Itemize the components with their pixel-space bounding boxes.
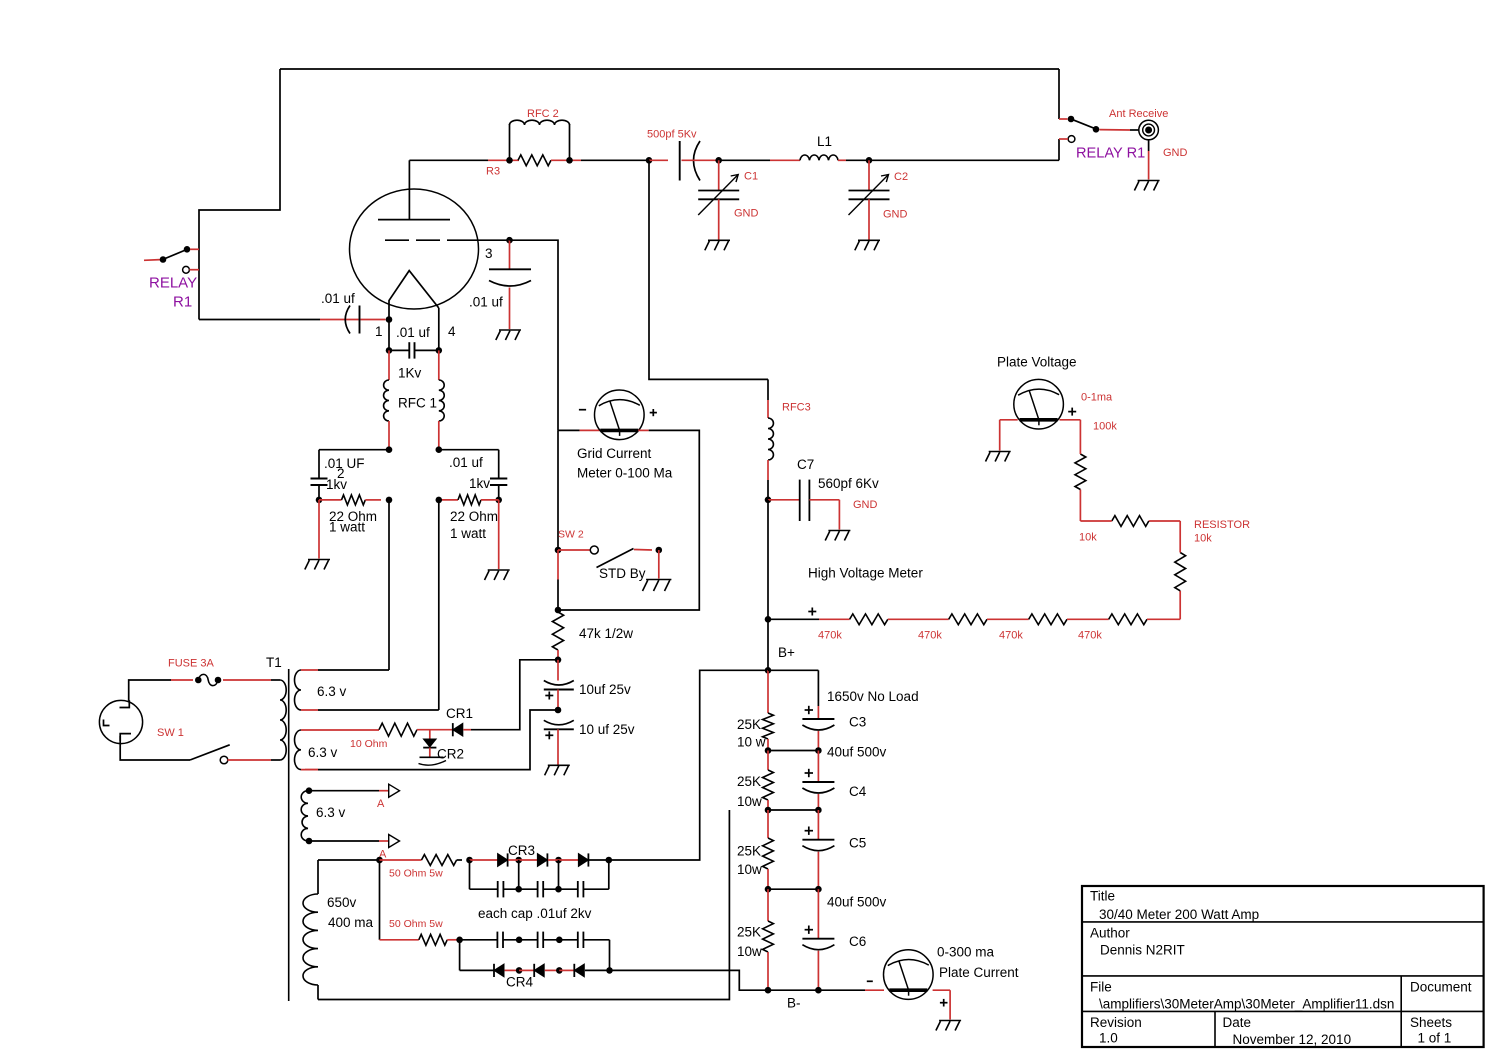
svg-text:560pf 6Kv: 560pf 6Kv bbox=[818, 476, 879, 491]
label .01 uf bbox=[469, 295, 503, 310]
node C7 junction bbox=[765, 497, 772, 504]
svg-text:1kv: 1kv bbox=[326, 477, 347, 492]
ground C1 bbox=[705, 240, 730, 250]
node B- right bbox=[815, 987, 822, 994]
svg-text:SW 1: SW 1 bbox=[157, 727, 184, 739]
node tap2 bbox=[765, 807, 819, 814]
capacitor 10 uf 25v (lower) bbox=[544, 720, 574, 739]
label + (plus) bbox=[940, 999, 948, 1007]
resistor 22 Ohm (left) bbox=[319, 495, 381, 505]
svg-text:C1: C1 bbox=[744, 171, 758, 183]
title block frame bbox=[1082, 886, 1484, 1047]
label 650v bbox=[327, 895, 357, 910]
resistor 470k #1 bbox=[850, 614, 888, 625]
label SW 1 bbox=[157, 727, 184, 739]
svg-text:.01 uf: .01 uf bbox=[449, 455, 483, 470]
svg-text:10k: 10k bbox=[1079, 532, 1097, 544]
svg-text:GND: GND bbox=[734, 208, 759, 220]
label 470k bbox=[1078, 630, 1102, 642]
svg-text:1 watt: 1 watt bbox=[329, 520, 365, 535]
svg-text:50 Ohm 5w: 50 Ohm 5w bbox=[389, 868, 443, 880]
label L1 bbox=[817, 134, 832, 149]
label Grid Current bbox=[577, 446, 652, 461]
label 50 Ohm 5w bbox=[389, 918, 443, 930]
svg-text:GND: GND bbox=[1163, 147, 1188, 159]
node pin 1 bbox=[386, 301, 393, 351]
wire 470k link3 bbox=[1067, 618, 1109, 620]
resistor 25K 10w #4 bbox=[763, 889, 774, 990]
svg-text:1.0: 1.0 bbox=[1099, 1031, 1118, 1046]
label 25K bbox=[737, 717, 761, 732]
tube filament bbox=[389, 271, 439, 308]
node CR4 out bbox=[606, 967, 613, 974]
node CR4 in bbox=[456, 937, 463, 944]
svg-text:C5: C5 bbox=[849, 836, 866, 851]
svg-text:10 uf 25v: 10 uf 25v bbox=[579, 722, 635, 737]
wire right box ground lead bbox=[498, 500, 500, 569]
wire 500pf to L1 bbox=[719, 159, 800, 161]
svg-text:470k: 470k bbox=[999, 630, 1023, 642]
wire SW2 node down bbox=[557, 550, 559, 610]
wire A down to CR4 row bbox=[379, 860, 381, 940]
tube V1 envelope bbox=[350, 189, 479, 309]
label Document bbox=[1410, 980, 1472, 995]
label STD By bbox=[599, 566, 646, 581]
svg-text:650v: 650v bbox=[327, 895, 357, 910]
wire winding3 top bbox=[309, 790, 388, 792]
svg-text:1kv: 1kv bbox=[469, 476, 490, 491]
label 560pf 6Kv bbox=[818, 476, 879, 491]
svg-text:FUSE 3A: FUSE 3A bbox=[168, 658, 215, 670]
svg-text:0-300 ma: 0-300 ma bbox=[937, 945, 995, 960]
inductor RFC 1 left bbox=[384, 350, 389, 449]
wire right box top bbox=[439, 450, 499, 479]
node CR3 a bbox=[508, 857, 522, 864]
connector A (top) bbox=[389, 784, 400, 797]
svg-text:1650v No Load: 1650v No Load bbox=[827, 689, 919, 704]
node B+ bbox=[765, 667, 772, 674]
transformer secondary 6.3v #2 bbox=[295, 730, 302, 770]
wire 470k link2 bbox=[987, 618, 1029, 620]
label C7 bbox=[797, 457, 814, 472]
label Sheets bbox=[1410, 1015, 1452, 1030]
label 1.0 bbox=[1099, 1031, 1118, 1046]
node right mid rail bbox=[436, 497, 443, 504]
node cap tap2 bbox=[815, 807, 822, 814]
label R1 (purple) bbox=[173, 294, 192, 311]
label Title bbox=[1090, 889, 1115, 904]
node winding3 bottom bbox=[306, 838, 313, 845]
label 470k bbox=[999, 630, 1023, 642]
node R3 left bbox=[506, 157, 513, 164]
label 50 Ohm 5w bbox=[389, 868, 443, 880]
node 10uf junction bbox=[555, 707, 562, 714]
capacitor 10uf 25v (upper) bbox=[544, 681, 574, 700]
wire winding3 bottom bbox=[309, 840, 388, 842]
label 1 watt bbox=[329, 520, 365, 535]
node winding3 top bbox=[306, 787, 313, 794]
wire top bus from relay to antenna relay bbox=[280, 68, 1059, 70]
resistor 10k vertical bbox=[1175, 553, 1186, 591]
label 1Kv bbox=[398, 366, 422, 381]
svg-text:R3: R3 bbox=[486, 166, 500, 178]
label CR1 bbox=[446, 706, 473, 721]
capacitor .01 UF 1kv (left) bbox=[311, 479, 328, 500]
wire HV tap bbox=[768, 618, 850, 620]
svg-text:RFC 1: RFC 1 bbox=[398, 396, 437, 411]
svg-text:GND: GND bbox=[883, 209, 908, 221]
inductor RFC 2 bbox=[510, 120, 570, 160]
resistor 25K 10w #1 bbox=[763, 670, 774, 750]
svg-text:November 12, 2010: November 12, 2010 bbox=[1233, 1032, 1352, 1047]
label .01 uf bbox=[396, 325, 430, 340]
svg-text:6.3 v: 6.3 v bbox=[308, 745, 338, 760]
wire left box ground lead bbox=[318, 500, 320, 559]
node R3 right bbox=[566, 157, 573, 164]
connector Ant jack bbox=[1139, 120, 1159, 140]
svg-text:each cap .01uf 2kv: each cap .01uf 2kv bbox=[478, 906, 592, 921]
label + (plus) bbox=[808, 608, 816, 616]
svg-text:CR2: CR2 bbox=[437, 747, 464, 762]
label 100k bbox=[1093, 421, 1117, 433]
capacitor .01 uf 1kv (right) bbox=[490, 479, 507, 500]
wire plate bus to R3 bbox=[409, 159, 519, 161]
svg-text:File: File bbox=[1090, 980, 1112, 995]
wire winding1 top bbox=[301, 669, 389, 671]
ground SW2 bbox=[643, 580, 672, 592]
wire right drop bbox=[1058, 69, 1060, 160]
node RFC1 right bottom bbox=[436, 446, 443, 453]
svg-text:C4: C4 bbox=[849, 784, 867, 799]
wire B+ to cap bank bbox=[768, 670, 818, 706]
meter M2 plate voltage bbox=[1014, 379, 1064, 429]
resistor R3 bbox=[518, 155, 551, 166]
label RFC 2 bbox=[527, 108, 559, 120]
ground grid bypass bbox=[496, 330, 521, 340]
capacitor C6 bbox=[802, 889, 834, 990]
ground C2 bbox=[855, 240, 880, 250]
svg-text:3: 3 bbox=[485, 246, 493, 261]
diode CR4-2 bbox=[519, 964, 559, 977]
tube plate bbox=[378, 160, 450, 219]
svg-text:L1: L1 bbox=[817, 134, 832, 149]
label .01 UF bbox=[324, 456, 365, 471]
label Author bbox=[1090, 926, 1130, 941]
diode CR3-2 bbox=[519, 853, 548, 866]
node CR3 b bbox=[548, 857, 562, 864]
AC plug P1 bbox=[99, 700, 142, 743]
svg-text:STD By: STD By bbox=[599, 566, 646, 581]
meter M3 plate current bbox=[884, 950, 934, 1000]
wire R3 right bbox=[551, 159, 649, 161]
relay R1 output contacts bbox=[1059, 116, 1139, 143]
resistor 470k #3 bbox=[1029, 614, 1067, 625]
svg-text:400 ma: 400 ma bbox=[328, 915, 374, 930]
inductor RFC3 bbox=[768, 379, 773, 499]
label SW 2 bbox=[558, 529, 584, 541]
node C2 top bbox=[866, 157, 873, 164]
ground 10uf caps bbox=[545, 765, 570, 775]
svg-text:R1: R1 bbox=[173, 294, 192, 311]
svg-text:Title: Title bbox=[1090, 889, 1115, 904]
label 10 uf 25v bbox=[579, 722, 635, 737]
fuse FUSE 3A bbox=[195, 674, 221, 685]
wire plug bottom to SW1 bbox=[120, 736, 190, 760]
transformer T1 core bbox=[288, 669, 290, 1001]
svg-text:100k: 100k bbox=[1093, 421, 1117, 433]
svg-text:C7: C7 bbox=[797, 457, 814, 472]
wire B- row bbox=[768, 989, 884, 991]
wire 47k to C 10uf bbox=[557, 660, 559, 681]
label 2 bbox=[337, 466, 345, 481]
svg-text:B+: B+ bbox=[778, 645, 795, 660]
label CR3 bbox=[508, 843, 535, 858]
switch SW1 bbox=[190, 745, 271, 764]
label T1 bbox=[266, 655, 282, 670]
capacitor C5 bbox=[802, 810, 834, 889]
label November 12, 2010 bbox=[1233, 1032, 1352, 1047]
ground plate current meter bbox=[936, 1021, 961, 1031]
connector A (bottom) bbox=[389, 835, 400, 848]
svg-text:470k: 470k bbox=[918, 630, 942, 642]
node B- left bbox=[765, 987, 772, 994]
svg-text:Sheets: Sheets bbox=[1410, 1015, 1452, 1030]
label C5 bbox=[849, 836, 866, 851]
wire 100k to meter bbox=[1060, 420, 1081, 454]
svg-text:RESISTOR: RESISTOR bbox=[1194, 519, 1250, 531]
svg-text:22 Ohm: 22 Ohm bbox=[450, 509, 498, 524]
svg-text:40uf 500v: 40uf 500v bbox=[827, 745, 887, 760]
switch SW2 bbox=[558, 546, 662, 568]
wire meter to ground bbox=[933, 990, 951, 1019]
label 10k bbox=[1079, 532, 1097, 544]
wire jack to ground bbox=[1148, 140, 1150, 180]
label 0-300 ma bbox=[937, 945, 995, 960]
svg-text:47k 1/2w: 47k 1/2w bbox=[579, 626, 633, 641]
diode CR1 bbox=[453, 723, 471, 736]
svg-text:CR1: CR1 bbox=[446, 706, 473, 721]
node tap1 bbox=[765, 747, 819, 754]
svg-text:10w: 10w bbox=[737, 944, 762, 959]
wire 10uf to ground bbox=[557, 729, 559, 764]
svg-text:10 w: 10 w bbox=[737, 735, 766, 750]
svg-text:A: A bbox=[377, 798, 385, 810]
svg-text:1 watt: 1 watt bbox=[450, 526, 486, 541]
svg-text:4: 4 bbox=[448, 324, 456, 339]
capacitor .01 uf grid bypass bbox=[489, 240, 531, 329]
node right box corner bbox=[495, 497, 502, 504]
svg-text:25K: 25K bbox=[737, 925, 761, 940]
label 25K bbox=[737, 925, 761, 940]
node pin4 junction bbox=[436, 347, 443, 354]
ground right box bbox=[485, 570, 510, 580]
label C2 bbox=[894, 171, 908, 183]
resistor 22 Ohm (right) bbox=[439, 495, 499, 505]
label GND bbox=[734, 208, 759, 220]
svg-text:RELAY R1: RELAY R1 bbox=[1076, 146, 1145, 162]
label each cap .01uf 2kv bbox=[478, 906, 592, 921]
resistor 470k #4 bbox=[1109, 614, 1147, 625]
label 10uf 25v bbox=[579, 682, 631, 697]
ground plate voltage meter bbox=[986, 452, 1011, 462]
label File bbox=[1090, 980, 1112, 995]
capacitors CR3 equalizing bbox=[470, 860, 609, 897]
label 30/40 Meter 200 Watt Amp bbox=[1099, 907, 1259, 922]
svg-text:Dennis N2RIT: Dennis N2RIT bbox=[1100, 943, 1185, 958]
node box corner bbox=[555, 607, 562, 614]
wire 10k to 100k bbox=[1080, 490, 1111, 522]
label 6.3 v bbox=[308, 745, 338, 760]
node A junction bbox=[376, 857, 383, 864]
wire 10ohm to CR1 bbox=[417, 729, 453, 731]
wire meter to ground bbox=[1000, 420, 1018, 451]
wire L1 to relay bbox=[869, 159, 1059, 161]
wire 47k to CR1 bbox=[471, 660, 558, 730]
transformer primary winding bbox=[271, 680, 286, 760]
label 10 w bbox=[737, 735, 766, 750]
wire relay to coupling cap bbox=[199, 319, 359, 321]
label 10 Ohm bbox=[350, 738, 388, 750]
label 1 of 1 bbox=[1418, 1031, 1452, 1046]
svg-text:Document: Document bbox=[1410, 980, 1472, 995]
resistor 10 Ohm bbox=[379, 723, 417, 736]
resistor 100k bbox=[1075, 454, 1086, 490]
wire winding1 bottom bbox=[301, 500, 439, 710]
svg-text:40uf 500v: 40uf 500v bbox=[827, 895, 887, 910]
label Plate Current bbox=[939, 965, 1019, 980]
label 40uf 500v bbox=[827, 895, 887, 910]
label .01 uf bbox=[321, 291, 355, 306]
svg-text:Grid Current: Grid Current bbox=[577, 446, 652, 461]
svg-text:470k: 470k bbox=[818, 630, 842, 642]
capacitor C3 bbox=[802, 706, 834, 751]
label - (minus) bbox=[867, 980, 873, 982]
ground CR2 bbox=[419, 757, 447, 765]
meter M1 grid current bbox=[595, 390, 645, 440]
resistor 470k #2 bbox=[949, 614, 987, 625]
svg-text:10w: 10w bbox=[737, 794, 762, 809]
resistor 50 Ohm 5w (bottom) bbox=[380, 934, 460, 945]
label 1kv bbox=[469, 476, 490, 491]
label Meter 0-100 Ma bbox=[577, 466, 673, 481]
relay R1 input contacts (left) bbox=[144, 246, 199, 273]
diode CR3-3 bbox=[559, 853, 589, 866]
svg-text:B-: B- bbox=[787, 996, 801, 1011]
wire CR3 to B+ bbox=[609, 670, 768, 860]
svg-text:50 Ohm 5w: 50 Ohm 5w bbox=[389, 918, 443, 930]
wire left box top bbox=[319, 450, 389, 479]
svg-text:470k: 470k bbox=[1078, 630, 1102, 642]
capacitor C1 (variable) bbox=[698, 160, 739, 239]
wire to 500pf cap bbox=[649, 159, 668, 161]
svg-text:C6: C6 bbox=[849, 934, 866, 949]
wire plug top to fuse bbox=[129, 680, 171, 701]
label 500pf 5Kv bbox=[647, 129, 697, 141]
resistor 25K 10w #2 bbox=[763, 751, 774, 811]
wire 650v bottom return bbox=[318, 810, 729, 1000]
label 10w bbox=[737, 944, 762, 959]
wire between 10uf caps bbox=[557, 690, 559, 711]
wire pin3 to meter bbox=[510, 240, 601, 430]
node CR4 a bbox=[516, 967, 523, 974]
wire CR4 to B- bbox=[610, 970, 769, 990]
label 6.3 v bbox=[317, 684, 347, 699]
label 6.3 v bbox=[316, 805, 346, 820]
label 470k bbox=[818, 630, 842, 642]
capacitor C4 bbox=[802, 751, 834, 811]
svg-text:10uf 25v: 10uf 25v bbox=[579, 682, 631, 697]
label 10w bbox=[737, 794, 762, 809]
label + (plus) bbox=[1068, 408, 1076, 416]
label 47k 1/2w bbox=[579, 626, 633, 641]
svg-text:Meter 0-100 Ma: Meter 0-100 Ma bbox=[577, 466, 673, 481]
capacitor C7 560pf 6Kv bbox=[768, 480, 839, 530]
wire CR4 caps to diodes bbox=[460, 940, 610, 971]
node left mid rail bbox=[386, 497, 393, 504]
label C4 bbox=[849, 784, 867, 799]
label 470k bbox=[918, 630, 942, 642]
node RFC1 left bottom bbox=[386, 446, 393, 453]
wire winding2 top bbox=[301, 729, 379, 731]
label 400 ma bbox=[328, 915, 374, 930]
svg-text:T1: T1 bbox=[266, 655, 282, 670]
label Dennis N2RIT bbox=[1100, 943, 1185, 958]
wire left drop to relay bbox=[199, 69, 280, 320]
diode CR3-1 bbox=[470, 853, 508, 866]
wire pin 4 lead bbox=[438, 308, 440, 350]
svg-text:10k: 10k bbox=[1194, 533, 1212, 545]
wire winding2 bottom bbox=[301, 769, 318, 771]
node tap3 bbox=[765, 886, 819, 893]
node 47k bottom bbox=[555, 657, 562, 664]
capacitor .01 uf input coupling bbox=[345, 306, 359, 334]
label 40uf 500v bbox=[827, 745, 887, 760]
wire SW2 to ground bbox=[658, 550, 660, 579]
capacitor 500pf 5Kv bbox=[680, 141, 717, 181]
svg-text:0-1ma: 0-1ma bbox=[1081, 392, 1113, 404]
label Ant Receive bbox=[1109, 108, 1168, 120]
wire plate supply drop bbox=[649, 160, 768, 379]
pin 3 label bbox=[485, 246, 493, 261]
wire 10uf junction to winding bbox=[305, 710, 558, 770]
label FUSE 3A bbox=[168, 658, 215, 670]
node SW2 left bbox=[555, 547, 562, 554]
ground Ant jack bbox=[1134, 181, 1159, 191]
node pin1 junction bbox=[386, 347, 393, 354]
svg-text:10 Ohm: 10 Ohm bbox=[350, 738, 388, 750]
wire B+ rail bbox=[767, 619, 769, 670]
svg-text:1Kv: 1Kv bbox=[398, 366, 422, 381]
label A bbox=[377, 798, 385, 810]
wire down to SW2 bbox=[557, 430, 559, 550]
label 25K bbox=[737, 844, 761, 859]
wire 10k link bbox=[1149, 521, 1180, 553]
svg-text:10w: 10w bbox=[737, 862, 762, 877]
svg-text:RELAY: RELAY bbox=[149, 275, 197, 292]
tube grid (dashed) bbox=[385, 239, 510, 241]
wire cap to tube pin 1 bbox=[361, 319, 386, 321]
svg-text:C3: C3 bbox=[849, 715, 866, 730]
transformer secondary 6.3v #1 bbox=[295, 670, 302, 710]
label RELAY R1 (purple) bbox=[1076, 146, 1145, 162]
node plate bus junction bbox=[646, 157, 653, 164]
node C1 top bbox=[715, 157, 722, 164]
node pin 3 bbox=[506, 237, 513, 244]
label 25K bbox=[737, 774, 761, 789]
label 1kv bbox=[326, 477, 347, 492]
svg-text:Ant Receive: Ant Receive bbox=[1109, 108, 1168, 120]
label C3 bbox=[849, 715, 866, 730]
